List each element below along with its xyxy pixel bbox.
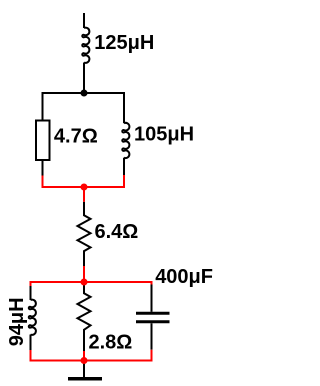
svg-text:400μF: 400μF bbox=[155, 266, 213, 288]
svg-text:125μH: 125μH bbox=[94, 32, 154, 54]
svg-text:2.8Ω: 2.8Ω bbox=[89, 332, 133, 354]
svg-text:6.4Ω: 6.4Ω bbox=[95, 221, 139, 243]
svg-text:4.7Ω: 4.7Ω bbox=[54, 126, 98, 148]
svg-text:105μH: 105μH bbox=[134, 123, 194, 145]
svg-text:94μH: 94μH bbox=[6, 297, 28, 346]
